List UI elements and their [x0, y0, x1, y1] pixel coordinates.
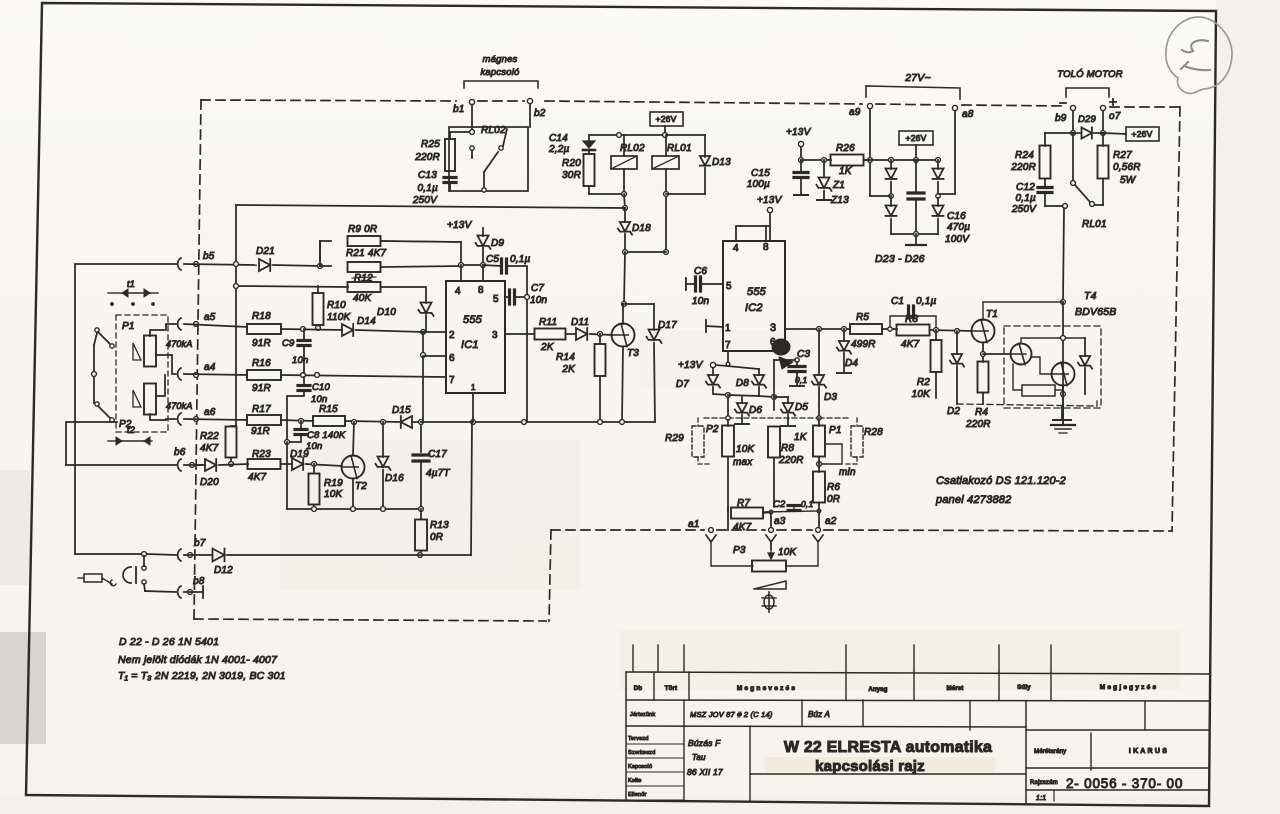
- wire relay common down: [236, 194, 627, 210]
- label TOLO MOTOR: [1057, 69, 1123, 80]
- svg-text:220R: 220R: [965, 419, 991, 430]
- svg-text:0,1: 0,1: [795, 375, 807, 385]
- svg-text:0,1µ: 0,1µ: [916, 296, 937, 307]
- transistor T3: [612, 304, 640, 422]
- capacitor C17 4u7T: [413, 425, 450, 509]
- diode D6: [735, 396, 763, 424]
- svg-text:2: 2: [449, 330, 455, 341]
- svg-text:R6: R6: [827, 482, 840, 493]
- svg-text:4: 4: [733, 243, 739, 254]
- svg-text:R11: R11: [539, 317, 557, 328]
- svg-text:0,1µ: 0,1µ: [418, 183, 439, 194]
- terminal a4: [178, 362, 247, 380]
- svg-text:Mérétarány: Mérétarány: [1034, 749, 1066, 755]
- capacitor C12 0.1u 250V: [1011, 179, 1063, 215]
- resistor R10 110K: [313, 286, 352, 330]
- svg-text:a6: a6: [204, 407, 216, 418]
- svg-text:+13V: +13V: [447, 220, 473, 231]
- svg-text:b1: b1: [453, 104, 465, 115]
- svg-text:220R: 220R: [778, 455, 804, 466]
- svg-text:R22: R22: [200, 431, 219, 442]
- svg-text:Tervezd: Tervezd: [628, 736, 649, 742]
- svg-text:R14: R14: [556, 352, 575, 363]
- svg-text:RL01: RL01: [667, 143, 692, 154]
- svg-text:C9: C9: [282, 338, 295, 349]
- transistor block T4 BDV65B: [1004, 290, 1116, 408]
- svg-text:t1: t1: [127, 279, 135, 289]
- wire T2 ground rail: [287, 507, 423, 512]
- ramp symbol: [754, 581, 786, 589]
- svg-text:D3: D3: [824, 392, 837, 403]
- svg-text:R25: R25: [421, 139, 440, 150]
- potentiometer P3 10K: [733, 545, 798, 572]
- svg-text:0R: 0R: [827, 494, 840, 505]
- svg-text:250V: 250V: [1011, 204, 1037, 215]
- svg-text:b9: b9: [1055, 113, 1067, 124]
- svg-text:R24: R24: [1015, 150, 1034, 161]
- diode D14: [342, 316, 446, 336]
- diode D8: [728, 369, 776, 399]
- svg-text:86 XII 17: 86 XII 17: [687, 767, 723, 777]
- resistor R11 2K: [505, 317, 576, 353]
- wire motor switch to T4: [1061, 208, 1066, 304]
- svg-text:a5: a5: [204, 312, 216, 323]
- wire a9 to bridge: [870, 195, 891, 197]
- relay coil RL02: [611, 135, 645, 196]
- svg-text:0,1µ: 0,1µ: [510, 254, 531, 265]
- diode D16: [375, 422, 404, 509]
- svg-text:R29: R29: [665, 433, 684, 444]
- diode D11: [571, 317, 612, 340]
- power label +13V to IC2: [757, 195, 783, 226]
- resistor R18 91R: [247, 311, 342, 349]
- dashed panel boundary: [194, 100, 1180, 621]
- polarity marks: [1060, 99, 1116, 105]
- svg-text:IC2: IC2: [745, 302, 763, 314]
- svg-text:a8: a8: [962, 109, 974, 120]
- svg-text:2- 0056 - 370- 00: 2- 0056 - 370- 00: [1066, 776, 1183, 791]
- resistor R3 4K7: [897, 314, 973, 350]
- svg-text:3: 3: [770, 322, 776, 334]
- svg-text:2K: 2K: [540, 342, 555, 353]
- svg-text:D12: D12: [214, 565, 233, 576]
- svg-text:4K7: 4K7: [200, 443, 219, 454]
- potentiometer P1 min: [813, 420, 856, 478]
- svg-text:kapcsoló: kapcsoló: [480, 67, 520, 78]
- capacitor C6 10n: [686, 266, 723, 307]
- resistor R6 0R: [813, 467, 840, 511]
- resistor R26 1K: [801, 143, 870, 177]
- svg-text:Méret: Méret: [946, 686, 963, 692]
- svg-text:C8 140K: C8 140K: [307, 430, 346, 441]
- svg-text:+26V: +26V: [656, 114, 677, 124]
- bracket tolo motor: [1066, 88, 1109, 97]
- power label +13V right: [786, 127, 812, 162]
- svg-text:10K: 10K: [912, 389, 932, 400]
- svg-text:R18: R18: [252, 311, 271, 322]
- svg-text:Rajzszám: Rajzszám: [1030, 780, 1058, 786]
- wire T3 ground rail: [421, 393, 655, 555]
- svg-text:0,1: 0,1: [801, 499, 813, 509]
- wire bridge top rail: [868, 158, 940, 163]
- svg-text:555: 555: [747, 286, 767, 298]
- resistor R5 499R: [850, 312, 897, 350]
- base resistor in T4: [1013, 364, 1065, 396]
- diode D29: [1073, 114, 1103, 139]
- svg-text:4K7: 4K7: [901, 339, 920, 350]
- svg-text:470µ: 470µ: [947, 222, 970, 233]
- svg-text:D18: D18: [632, 223, 651, 234]
- svg-text:C17: C17: [428, 449, 447, 460]
- svg-text:R13: R13: [430, 520, 449, 531]
- power node +26V box top middle: [650, 112, 683, 135]
- terminal b7: [75, 538, 211, 561]
- svg-text:R5: R5: [856, 312, 869, 323]
- svg-text:10K: 10K: [324, 489, 344, 500]
- resistor R17 91R: [247, 404, 313, 437]
- jack symbol: [78, 556, 146, 586]
- svg-text:1: 1: [725, 323, 731, 334]
- resistor R23 4K7: [248, 449, 293, 483]
- resistor R21 4K7: [320, 248, 461, 272]
- power node +26V box motor: [1103, 127, 1159, 141]
- contact symbol t1: [108, 279, 158, 306]
- svg-text:a1: a1: [688, 519, 700, 530]
- svg-text:Csatlakozó DS 121.120-2: Csatlakozó DS 121.120-2: [936, 475, 1066, 487]
- svg-text:2,2µ: 2,2µ: [548, 144, 570, 155]
- resistor R24 220R: [1010, 133, 1073, 179]
- resistor R4 220R: [965, 343, 991, 430]
- pot wiring to a rows: [150, 324, 176, 420]
- diode D4: [837, 329, 859, 373]
- wire +26V rail: [590, 133, 705, 138]
- svg-text:R28: R28: [864, 427, 883, 438]
- svg-text:a9: a9: [849, 107, 861, 118]
- terminal o7: [1100, 105, 1120, 135]
- note transistors: [118, 670, 286, 682]
- svg-text:Tau: Tau: [692, 753, 706, 762]
- wire IC2 pin7 down: [726, 351, 730, 366]
- svg-text:C7: C7: [531, 283, 544, 294]
- capacitor C5 0.1u: [382, 241, 531, 294]
- diode D7: [676, 375, 731, 397]
- resistor R20 30R: [562, 154, 624, 194]
- svg-text:Ellenőr: Ellenőr: [628, 792, 647, 798]
- svg-text:Anyag: Anyag: [868, 687, 887, 693]
- potentiometer P2 470kA: [133, 384, 193, 415]
- svg-text:I K A R U S: I K A R U S: [1129, 748, 1167, 755]
- svg-text:2K: 2K: [561, 364, 576, 375]
- svg-text:10K: 10K: [736, 444, 756, 455]
- svg-text:5W: 5W: [1120, 175, 1137, 186]
- diode D9: [475, 228, 504, 265]
- svg-text:D11: D11: [571, 317, 589, 328]
- svg-text:0,56R: 0,56R: [1113, 162, 1141, 173]
- svg-text:110K: 110K: [327, 312, 352, 323]
- svg-text:5: 5: [726, 281, 732, 292]
- svg-text:D9: D9: [491, 238, 504, 249]
- resistor R19 10K: [309, 464, 344, 509]
- svg-text:M e g j e g y z é s: M e g j e g y z é s: [1100, 684, 1157, 691]
- label csatlakozo: [935, 475, 1066, 506]
- svg-text:T3: T3: [627, 348, 639, 359]
- terminal a9: [849, 103, 873, 196]
- svg-text:M e g n e v e z é s: M e g n e v e z é s: [737, 685, 796, 692]
- terminal b2: [527, 98, 545, 127]
- resistor R28 dashed: [845, 418, 883, 464]
- svg-text:D6: D6: [749, 405, 762, 416]
- svg-text:+26V: +26V: [906, 133, 927, 143]
- rectifier diode D25: [885, 198, 896, 234]
- wire pin6 column to R8: [773, 360, 775, 410]
- op-amp timer IC2 555: [723, 241, 785, 351]
- diode D15: [392, 405, 423, 428]
- capacitor C9 10n: [282, 329, 310, 373]
- svg-text:kapcsolási rajz: kapcsolási rajz: [815, 758, 925, 775]
- svg-text:R27: R27: [1113, 150, 1132, 161]
- svg-text:Db: Db: [634, 686, 643, 692]
- title block table: [626, 645, 1209, 803]
- svg-text:D4: D4: [845, 358, 858, 369]
- svg-text:1K: 1K: [839, 166, 853, 177]
- wire pin2 column: [421, 332, 446, 421]
- svg-text:R4: R4: [975, 407, 988, 418]
- svg-text:Z1: Z1: [832, 180, 845, 191]
- svg-text:D29: D29: [1078, 114, 1097, 125]
- svg-text:40K: 40K: [353, 293, 373, 304]
- svg-text:RL01: RL01: [1082, 219, 1107, 230]
- diode D17: [624, 304, 677, 422]
- svg-text:+13V: +13V: [786, 127, 812, 138]
- svg-text:100V: 100V: [945, 234, 970, 245]
- svg-text:D23 - D26: D23 - D26: [875, 253, 925, 265]
- svg-text:+13V: +13V: [678, 360, 704, 371]
- diode D2: [947, 331, 964, 417]
- capacitor C15 100u: [747, 160, 808, 195]
- wire IC2 pin1 stub: [706, 320, 723, 332]
- svg-text:100µ: 100µ: [747, 179, 770, 190]
- resistor R14 2K: [556, 334, 605, 422]
- potentiometer P2 10K max: [706, 397, 756, 530]
- wire feedback left vertical: [75, 264, 176, 554]
- svg-text:a3: a3: [774, 516, 786, 527]
- svg-text:Súly: Súly: [1017, 685, 1031, 691]
- svg-text:BDV65B: BDV65B: [1075, 306, 1116, 318]
- wire IC2 pin3 output: [785, 327, 850, 332]
- svg-text:D10: D10: [377, 307, 396, 318]
- svg-text:R10: R10: [327, 300, 346, 311]
- terminal b1: [453, 99, 475, 130]
- svg-text:R15: R15: [319, 404, 338, 415]
- ink blob IC2 pin2: [772, 339, 793, 369]
- bracket over b1 b2: [464, 81, 538, 88]
- rectifier diode D26: [932, 198, 943, 234]
- capacitor C13 0.1u 250V: [412, 170, 456, 206]
- svg-text:RL02: RL02: [481, 125, 506, 136]
- svg-text:470kA: 470kA: [166, 339, 193, 349]
- zener Z1 Z13: [816, 160, 849, 206]
- capacitor C16 470u 100V: [908, 160, 970, 245]
- capacitor C3 0.1: [774, 349, 810, 386]
- svg-text:Szerkeszd: Szerkeszd: [628, 750, 655, 756]
- svg-text:8: 8: [763, 242, 769, 253]
- dash link pots: [704, 417, 851, 419]
- ground T4: [1051, 394, 1075, 433]
- svg-text:D16: D16: [385, 473, 404, 484]
- svg-text:5: 5: [493, 294, 499, 305]
- capacitor C7 10n: [505, 283, 548, 422]
- resistor R13 0R: [415, 509, 449, 557]
- dashed pot box P1 P2: [116, 315, 168, 432]
- svg-text:Kelte: Kelte: [628, 778, 642, 784]
- svg-text:10n: 10n: [692, 296, 710, 307]
- svg-text:b2: b2: [534, 108, 546, 119]
- svg-text:91R: 91R: [251, 426, 270, 437]
- diode D19: [290, 449, 342, 470]
- svg-text:C15: C15: [751, 168, 770, 179]
- svg-text:D2: D2: [947, 406, 960, 417]
- wire bridge bottom: [891, 232, 938, 237]
- svg-text:1: 1: [471, 383, 476, 392]
- svg-text:T4: T4: [1084, 290, 1097, 302]
- selector switch contacts P1 P2: [92, 328, 115, 422]
- svg-text:C10: C10: [312, 382, 331, 393]
- resistor R2 10K: [912, 330, 942, 400]
- svg-text:R3: R3: [905, 314, 918, 325]
- svg-text:C5: C5: [486, 254, 499, 265]
- svg-text:Búzás F: Búzás F: [688, 738, 721, 748]
- svg-text:27V~: 27V~: [904, 72, 931, 84]
- svg-text:0,1µ: 0,1µ: [1016, 193, 1037, 204]
- terminal b9: [1055, 105, 1076, 135]
- svg-text:min: min: [839, 467, 856, 478]
- terminal a2: [786, 516, 837, 566]
- svg-text:D7: D7: [676, 379, 689, 390]
- svg-text:P3: P3: [733, 545, 746, 556]
- resistor R27 0.56R 5W: [1095, 133, 1141, 205]
- svg-text:Jártszünk: Jártszünk: [630, 712, 655, 718]
- label D23-D26: [875, 253, 925, 265]
- svg-text:C14: C14: [549, 133, 568, 144]
- svg-text:D20: D20: [200, 477, 219, 488]
- power node +26V box bridge: [899, 131, 933, 162]
- diode D20: [196, 459, 248, 488]
- terminal a5: [178, 312, 247, 330]
- svg-text:a2: a2: [825, 516, 837, 527]
- transistor T2: [342, 422, 368, 509]
- terminal a1: [688, 519, 753, 566]
- svg-text:4K7: 4K7: [733, 522, 752, 533]
- svg-text:+13V: +13V: [757, 195, 783, 206]
- svg-text:R26: R26: [836, 143, 855, 154]
- handwritten circled sheet number 14: [1166, 17, 1232, 93]
- diode D3: [812, 329, 838, 420]
- svg-text:8: 8: [478, 285, 484, 296]
- wire b6 left branch: [66, 422, 176, 465]
- relay switch contact in RL02 box: [470, 129, 507, 192]
- svg-text:R2: R2: [917, 377, 930, 388]
- svg-text:220R: 220R: [414, 152, 440, 163]
- resistor R9 0R: [320, 224, 461, 266]
- terminal b5: [178, 251, 256, 270]
- svg-text:91R: 91R: [252, 338, 271, 349]
- svg-text:4K7: 4K7: [248, 472, 267, 483]
- svg-text:C16: C16: [947, 211, 966, 222]
- svg-text:a4: a4: [204, 362, 216, 373]
- svg-text:P1: P1: [122, 321, 135, 332]
- svg-text:D15: D15: [392, 405, 411, 416]
- resistor R29 dashed: [665, 418, 712, 464]
- wire +13V row under IC2: [713, 365, 759, 375]
- relay contact RL01 motor: [1063, 133, 1107, 230]
- wire pot rows to terminals: [728, 507, 819, 528]
- capacitor C2 0.1: [763, 499, 821, 514]
- svg-text:4: 4: [455, 286, 461, 297]
- svg-text:t2: t2: [127, 425, 135, 435]
- capacitor C8 10n: [285, 421, 346, 509]
- svg-text:Búz A: Búz A: [808, 710, 830, 719]
- power label +13V under IC2: [678, 360, 716, 371]
- label 27V~: [904, 72, 931, 84]
- svg-text:o7: o7: [1109, 111, 1121, 122]
- diode D13: [666, 135, 731, 194]
- diode D18: [618, 208, 666, 306]
- svg-text:10n: 10n: [292, 355, 308, 366]
- svg-text:1:1: 1:1: [1036, 795, 1046, 802]
- svg-text:IC1: IC1: [461, 339, 479, 351]
- svg-text:Z13: Z13: [830, 195, 849, 206]
- op-amp timer IC1 555: [446, 281, 505, 393]
- svg-text:555: 555: [463, 314, 483, 326]
- svg-text:10n: 10n: [530, 295, 548, 306]
- svg-text:D13: D13: [712, 157, 731, 168]
- contact symbol t2: [108, 425, 152, 445]
- terminal a6: [178, 407, 247, 425]
- svg-text:C12: C12: [1016, 182, 1035, 193]
- note D22-D26: [119, 636, 219, 648]
- terminal b8: [144, 576, 205, 598]
- svg-text:C13: C13: [418, 170, 437, 181]
- resistor R16 91R: [247, 358, 446, 394]
- svg-text:D5: D5: [795, 402, 808, 413]
- dash ground row D2 R4: [957, 401, 1097, 420]
- svg-text:D14: D14: [357, 316, 376, 327]
- svg-text:D8: D8: [736, 378, 749, 389]
- rectifier diode D23: [885, 160, 896, 198]
- diode in T4: [1021, 336, 1092, 394]
- svg-text:panel 4273882: panel 4273882: [935, 494, 1011, 506]
- svg-text:P1: P1: [829, 425, 842, 436]
- resistor R22 4K7: [200, 426, 237, 466]
- svg-text:+26V: +26V: [1132, 129, 1153, 139]
- svg-text:30R: 30R: [562, 170, 581, 181]
- svg-text:C6: C6: [694, 266, 707, 277]
- svg-text:1K: 1K: [794, 432, 808, 443]
- wire T1 collector to motor line: [983, 302, 1063, 424]
- svg-text:T₁ = T₃ 2N 2219, 2N 3019,: T₁ = T₃ 2N 2219, 2N 3019, BC 301: [118, 670, 286, 682]
- svg-text:T1: T1: [986, 309, 998, 320]
- svg-text:R9 0R: R9 0R: [348, 224, 377, 235]
- svg-text:Nem jelölt diódák 1N 4001-: Nem jelölt diódák 1N 4001- 4007: [118, 654, 278, 666]
- svg-text:b7: b7: [194, 538, 206, 549]
- diode D12: [213, 549, 472, 576]
- svg-text:R16: R16: [252, 358, 271, 369]
- svg-text:mágnes: mágnes: [483, 54, 518, 65]
- svg-text:7: 7: [725, 340, 731, 351]
- diode D10: [377, 303, 433, 335]
- transistor T4a: [983, 344, 1032, 365]
- capacitor C10 10n: [287, 377, 331, 442]
